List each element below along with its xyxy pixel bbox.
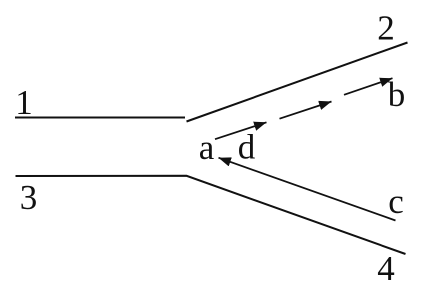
svg-text:b: b	[388, 75, 406, 114]
svg-text:3: 3	[20, 178, 38, 217]
svg-text:a: a	[199, 128, 215, 167]
svg-text:4: 4	[377, 249, 395, 288]
svg-text:2: 2	[377, 9, 395, 48]
svg-text:c: c	[388, 182, 404, 221]
svg-text:1: 1	[15, 83, 33, 122]
svg-text:d: d	[238, 128, 256, 167]
